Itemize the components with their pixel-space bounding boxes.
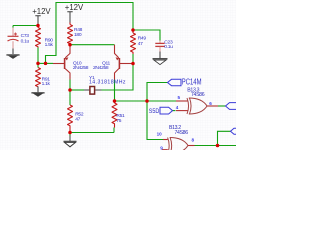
wire base row Q10: [38, 62, 53, 64]
svg-text:1.5k: 1.5k: [45, 42, 54, 48]
wire R49 bottom: [132, 54, 134, 64]
wire R90 bottom to base row: [37, 48, 39, 64]
svg-text:9: 9: [160, 145, 163, 150]
crystal Y1: [84, 75, 126, 94]
resistor R90: [36, 26, 54, 48]
svg-text:74S86: 74S86: [175, 130, 189, 136]
wire junction row to gate1 pin5: [115, 100, 177, 102]
wire Q10 collector down: [69, 80, 71, 91]
wire R52 top: [69, 90, 71, 105]
svg-text:47: 47: [75, 116, 80, 122]
wire PC14M branch: [147, 83, 168, 102]
ground (open) under C23: [153, 59, 168, 65]
power +12V left: [32, 7, 51, 25]
wire down to gate2 pin10: [147, 101, 163, 140]
svg-text:5: 5: [178, 95, 181, 100]
wire Q11 collector down: [114, 80, 116, 102]
resistor R48: [68, 23, 83, 45]
resistor R51: [112, 101, 125, 128]
ground (filled) under C73: [6, 54, 19, 59]
capacitor C73: [8, 26, 30, 55]
svg-text:0.1u: 0.1u: [21, 39, 30, 45]
flag PC14M: [168, 79, 202, 87]
svg-text:PC14M: PC14M: [182, 79, 202, 87]
transistor Q10: [53, 45, 89, 80]
wire S5D to pin4: [173, 110, 176, 112]
flag S5D: [149, 107, 173, 115]
resistor R52: [68, 105, 84, 133]
junction dots: [36, 24, 40, 28]
flag gate1 output: [226, 103, 238, 110]
wire gate2 output: [195, 145, 237, 147]
svg-text:6: 6: [209, 101, 212, 106]
background grid: [0, 0, 236, 150]
wire up to flag2: [218, 131, 231, 145]
svg-text:S5D: S5D: [149, 108, 160, 116]
svg-text:180: 180: [74, 32, 82, 38]
wire crystal left: [70, 89, 84, 91]
capacitor C23: [155, 40, 173, 59]
svg-text:1.1k: 1.1k: [42, 81, 51, 87]
transistor Q11: [93, 45, 133, 80]
XOR gate U2 B13.2: [157, 125, 195, 153]
resistor R49: [131, 30, 147, 54]
wire crystal right to R49 column: [102, 64, 134, 91]
svg-text:R49: R49: [138, 36, 147, 42]
svg-text:74S86: 74S86: [191, 92, 205, 98]
svg-text:75: 75: [116, 118, 121, 124]
ground (open) under R52: [64, 133, 77, 147]
wire emitter row: [70, 44, 115, 46]
wire bottom rail: [70, 128, 114, 133]
svg-text:8: 8: [192, 137, 195, 142]
svg-text:0.1u: 0.1u: [164, 44, 173, 50]
svg-text:+12V: +12V: [65, 3, 84, 12]
svg-text:47: 47: [138, 41, 143, 47]
wire C73 to R90 top: [13, 25, 38, 27]
power +12V right: [65, 3, 84, 23]
XOR gate U1 B13.3: [176, 87, 218, 114]
flag gate2 output: [231, 128, 238, 134]
svg-text:C73: C73: [21, 33, 30, 39]
resistor R91: [36, 63, 51, 92]
wire gate1 output: [218, 105, 226, 107]
ground (filled) under R91: [31, 92, 44, 97]
svg-text:10: 10: [157, 132, 163, 137]
svg-text:4: 4: [176, 105, 179, 110]
svg-text:2N4258: 2N4258: [93, 65, 109, 71]
wire rail to C23: [133, 30, 160, 41]
wire top rail: [46, 3, 134, 64]
svg-text:2N4258: 2N4258: [73, 65, 89, 71]
svg-text:+12V: +12V: [32, 7, 51, 16]
svg-text:14.31818MHz: 14.31818MHz: [89, 80, 126, 86]
